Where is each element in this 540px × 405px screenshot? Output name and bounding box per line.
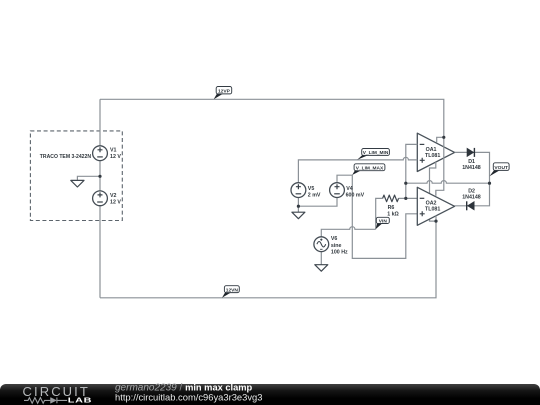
node junction dot R6 / OA2 inverting — [404, 197, 407, 200]
svg-text:12VP: 12VP — [218, 88, 231, 94]
wire VIN riser and R6 leads — [376, 198, 406, 229]
voltage source V5 2 mV — [291, 183, 321, 199]
wire OA1 V- supply path down behind OA2 — [430, 162, 437, 221]
svg-text:VOUT: VOUT — [494, 165, 508, 171]
footer bar — [0, 384, 540, 405]
wire OA1 output through D1, down VOUT node, through D2 to OA2 output — [455, 152, 490, 205]
wire feedback from VOUT node to inverting rail (two hops) — [406, 181, 490, 184]
node junction dot VOUT — [488, 182, 491, 185]
svg-text:V_LIM_MIN: V_LIM_MIN — [363, 150, 389, 156]
voltage source V6 sine 100 Hz — [314, 236, 348, 255]
svg-text:R6: R6 — [388, 205, 395, 211]
wire TRACO midpoint ground tap — [77, 176, 100, 180]
CircuitLab logo doodle (resistor + diode) — [24, 398, 67, 404]
ground (TRACO midpoint) — [71, 180, 84, 187]
node junction dot V- rail — [434, 220, 437, 223]
svg-text:LAB: LAB — [68, 396, 92, 404]
svg-text:100 Hz: 100 Hz — [331, 250, 348, 256]
net label VOUT — [490, 163, 510, 176]
wire bottom 12VN rail up to op-amp V- junction — [100, 221, 436, 298]
net label V_LIM_MIN — [357, 149, 389, 160]
wire OA1 V+ stub — [437, 137, 444, 142]
net label VIN — [376, 217, 390, 229]
svg-text:V4: V4 — [346, 186, 353, 192]
net label 12VN — [222, 286, 239, 298]
svg-text:V1: V1 — [110, 148, 117, 154]
svg-text:TL081: TL081 — [425, 207, 440, 213]
resistor R6 1 kOhm — [383, 195, 400, 217]
wire V4 to OA2 + input (V_LIM_MAX net) — [337, 175, 417, 258]
diode D2 1N4148 — [462, 188, 481, 210]
svg-text:1N4148: 1N4148 — [462, 165, 481, 171]
node junction dot V5/V4 ground — [297, 205, 300, 208]
wire left rail (12VP corner down through V1,V2 to 12VN corner) — [99, 99, 101, 297]
svg-text:V5: V5 — [308, 186, 315, 192]
voltage source V1 12 V — [93, 146, 122, 161]
net label 12VP — [214, 87, 232, 100]
svg-text:12VN: 12VN — [226, 287, 239, 293]
svg-text:12 V: 12 V — [110, 154, 121, 160]
svg-text:12 V: 12 V — [110, 199, 121, 205]
op-amp OA2 TL081 body — [417, 187, 454, 225]
svg-text:TRACO TEM 3-2422N: TRACO TEM 3-2422N — [40, 154, 92, 160]
wire V5 bottom to ground / V4 bottom join — [298, 198, 337, 213]
op-amp OA1 TL081 body — [417, 133, 454, 171]
svg-text:sine: sine — [331, 243, 342, 249]
svg-text:D1: D1 — [468, 159, 475, 165]
svg-text:VIN: VIN — [379, 218, 388, 224]
svg-text:2 mV: 2 mV — [308, 192, 321, 198]
svg-text:D2: D2 — [468, 188, 475, 194]
wire V6 bottom ground stub — [320, 252, 322, 265]
svg-text:http://circuitlab.com/c96ya3r3: http://circuitlab.com/c96ya3r3e3vg3 — [115, 391, 262, 402]
wire inverting input rail OA1- to OA2- — [406, 144, 418, 198]
svg-text:TL081: TL081 — [425, 153, 440, 159]
ground (V5/V4 common) — [292, 212, 305, 219]
svg-text:V_LIM_MAX: V_LIM_MAX — [356, 165, 384, 171]
svg-text:1 kΩ: 1 kΩ — [387, 212, 399, 218]
diode D1 1N4148 — [462, 148, 481, 171]
wire OA2 V- stub — [435, 216, 437, 222]
svg-text:600 mV: 600 mV — [346, 192, 365, 198]
ground (V6) — [315, 265, 328, 272]
TRACO TEM 3-2422N dashed module box — [30, 131, 122, 221]
wire top 12VP rail and V+ supply drop to op-amps — [100, 99, 444, 195]
voltage source V2 12 V — [93, 191, 122, 206]
node junction dot TRACO midpoint — [98, 175, 101, 178]
net label V_LIM_MAX — [352, 164, 385, 175]
voltage source V4 600 mV — [330, 183, 365, 199]
svg-text:1N4148: 1N4148 — [462, 195, 481, 201]
node junction dot OA1 V+ — [442, 136, 445, 139]
wire V5 to OA1 + input (V_LIM_MIN net, hop over inverting rail) — [298, 157, 417, 182]
node junction dot feedback left — [404, 182, 407, 185]
svg-text:V2: V2 — [110, 193, 117, 199]
wire V6 to VIN corner (hop over V_LIM_MAX drop) — [321, 227, 375, 237]
svg-text:V6: V6 — [331, 236, 338, 242]
wire OA2 V+ stub — [435, 190, 437, 195]
